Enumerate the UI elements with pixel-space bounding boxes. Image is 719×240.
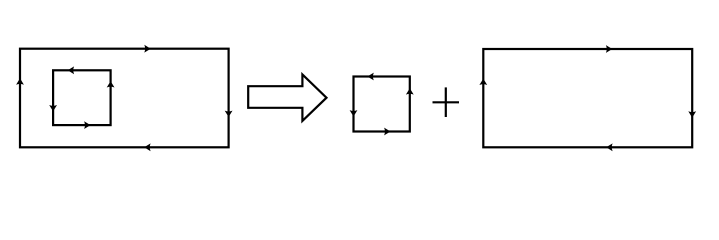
- arrow on right rectangle bottom edge, leftward: [606, 143, 612, 151]
- arrow on inner square top edge, leftward: [68, 66, 74, 74]
- arrow on outer rectangle right edge, downward: [225, 111, 233, 117]
- arrow on small square left edge, downward: [350, 110, 358, 116]
- outer rectangle contour (left figure): [20, 49, 229, 148]
- arrow on outer rectangle left edge, upward: [16, 78, 24, 84]
- arrow on inner square bottom edge, rightward: [84, 121, 90, 129]
- arrow on outer rectangle bottom edge, leftward: [144, 143, 150, 151]
- arrow on right rectangle left edge, upward: [479, 79, 487, 85]
- arrow on right rectangle top edge, rightward: [606, 45, 612, 53]
- right rectangle contour: [483, 49, 692, 147]
- small square contour (middle figure): [354, 77, 410, 132]
- arrow on right rectangle right edge, downward: [688, 111, 696, 117]
- block arrow (implies symbol): [248, 75, 326, 121]
- arrow on inner square right edge, upward: [107, 81, 115, 87]
- inner square contour (left figure): [53, 70, 111, 125]
- arrow on small square bottom edge, rightward: [384, 128, 390, 136]
- arrow on small square right edge, upward: [406, 88, 414, 94]
- arrow on inner square left edge, downward: [49, 105, 57, 111]
- plus sign: [433, 87, 460, 117]
- arrow on outer rectangle top edge, rightward: [144, 45, 150, 53]
- arrow on small square top edge, leftward: [367, 73, 373, 81]
